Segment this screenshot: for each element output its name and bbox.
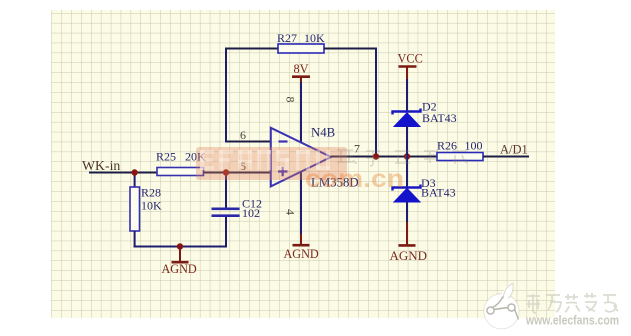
watermark gray chinese chars	[337, 150, 467, 166]
svg-text:BAT43: BAT43	[421, 186, 456, 200]
svg-text:10K: 10K	[141, 199, 162, 213]
svg-text:7: 7	[354, 142, 360, 156]
op-amp plus sign	[278, 170, 288, 172]
resistor R28	[130, 187, 140, 231]
watermark pink letters	[200, 150, 330, 170]
ground AGND middle	[300, 234, 302, 245]
watermark pink band	[196, 147, 347, 180]
svg-text:www.elecfans.com: www.elecfans.com	[525, 313, 619, 328]
svg-text:102: 102	[242, 206, 260, 220]
junction dot at R28 top	[131, 169, 137, 175]
diode D2 BAT43	[393, 109, 421, 115]
svg-text:R27: R27	[277, 31, 297, 45]
wire R28 branch vertical	[134, 173, 136, 188]
wire D2 to output	[406, 126, 408, 157]
logo inner curve	[492, 297, 503, 308]
wire feedback top left	[225, 48, 278, 50]
ground AGND left	[179, 247, 181, 263]
wire op-amp output pin7	[331, 156, 437, 158]
wire feedback left vertical	[225, 48, 227, 143]
junction dot feedback/output	[373, 153, 379, 159]
svg-text:BAT43: BAT43	[422, 111, 457, 125]
wire R28 bottom	[134, 231, 136, 248]
wire feedback top right	[324, 48, 377, 50]
junction dot at C12 top	[223, 169, 229, 175]
svg-text:AGND: AGND	[390, 248, 428, 263]
svg-text:N4B: N4B	[311, 126, 335, 140]
wire bottom horizontal	[134, 246, 227, 248]
logo rod	[494, 308, 508, 310]
svg-text:AGND: AGND	[284, 247, 319, 261]
sheet background	[51, 10, 555, 318]
junction dot diodes/output	[404, 153, 410, 159]
svg-text:A/D1: A/D1	[500, 143, 528, 157]
svg-text:100: 100	[465, 139, 483, 153]
wire feedback right vertical	[375, 48, 377, 157]
svg-text:com.cn: com.cn	[305, 165, 404, 193]
svg-text:R25: R25	[156, 150, 176, 164]
wire WK-in input	[89, 172, 157, 174]
wire 8V to op-amp pin8	[300, 82, 302, 143]
svg-text:R28: R28	[141, 186, 161, 200]
resistor R27	[278, 44, 324, 53]
ground AGND right	[406, 222, 408, 245]
svg-text:WK-in: WK-in	[82, 158, 120, 173]
capacitor C12	[212, 208, 240, 211]
wire C12 bottom vertical	[225, 216, 227, 247]
wire op-amp pin6	[226, 141, 271, 143]
svg-text:4: 4	[284, 209, 298, 215]
svg-text:VCC: VCC	[398, 52, 423, 66]
wire R25 to op-amp pin5	[204, 172, 272, 174]
svg-text:AGND: AGND	[162, 262, 197, 276]
resistor R26	[437, 153, 483, 161]
diode D3 BAT43	[393, 185, 421, 191]
logo node right	[508, 304, 515, 311]
wire C12 top vertical	[225, 173, 227, 208]
op-amp U1 LM358D triangle	[271, 128, 331, 187]
logo chinese brand strokes	[527, 293, 618, 313]
svg-text:6: 6	[240, 128, 246, 142]
resistor R25	[157, 168, 204, 176]
svg-text:10K: 10K	[304, 31, 325, 45]
wire D3 to AGND	[406, 202, 408, 223]
svg-text:8V: 8V	[294, 62, 309, 76]
logo blob bottom right	[484, 294, 519, 329]
wire output to D3	[406, 157, 408, 188]
wire VCC to D2	[406, 79, 408, 111]
svg-text:8: 8	[284, 97, 298, 103]
wire op-amp pin4 down	[300, 172, 302, 234]
logo node left	[487, 307, 494, 314]
op-amp minus sign	[279, 140, 288, 142]
wire R26 to A/D1	[483, 156, 529, 158]
junction dot AGND left	[177, 243, 183, 249]
